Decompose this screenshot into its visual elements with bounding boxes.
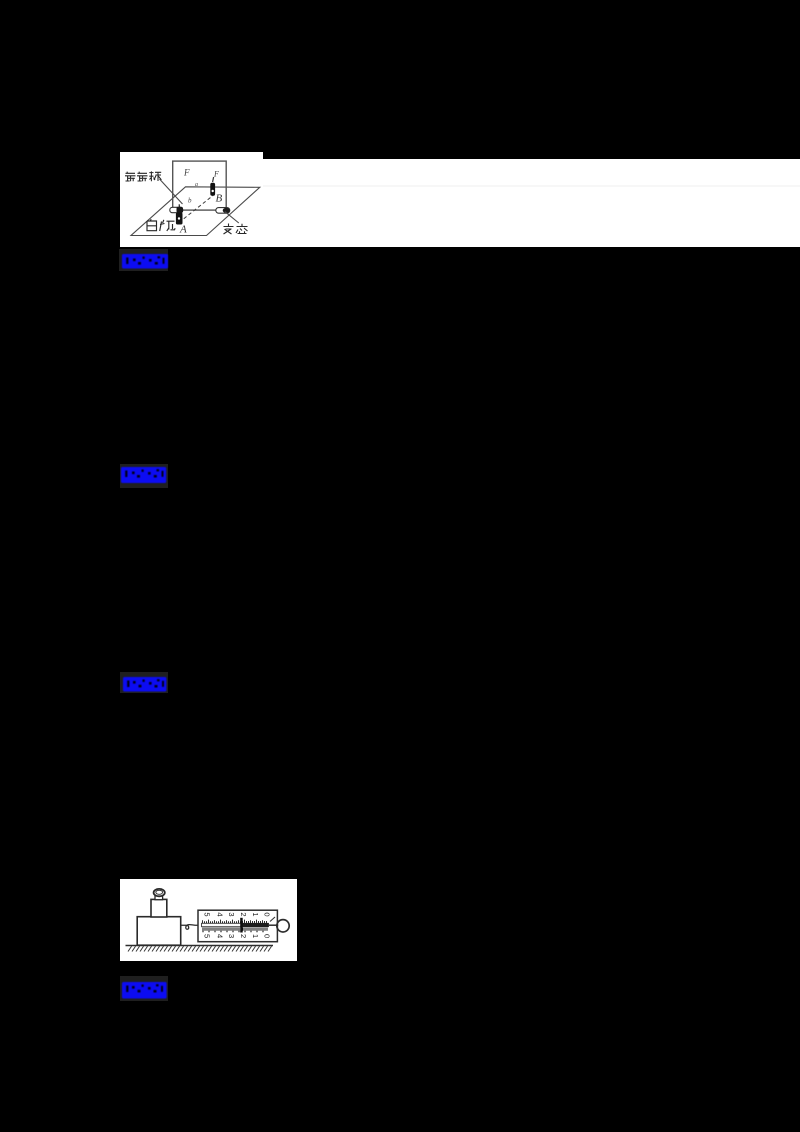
svg-text:0: 0 [262, 934, 271, 938]
candle B body [210, 183, 215, 196]
link artifact box 3 [120, 672, 169, 694]
glyph 支架 [224, 224, 248, 235]
svg-text:2: 2 [239, 912, 248, 916]
svg-text:3: 3 [226, 934, 235, 938]
white paper parallelogram [131, 187, 260, 236]
spring scale body [198, 910, 277, 942]
figure 2: block + weight pulled by spring scale [120, 879, 298, 961]
svg-text:2: 2 [239, 934, 248, 938]
svg-text:4: 4 [215, 934, 224, 938]
ruler ticks below [203, 928, 267, 933]
weight knob neck [155, 896, 163, 900]
pull ring [276, 920, 288, 932]
svg-text:5: 5 [202, 934, 211, 938]
svg-text:3: 3 [226, 912, 235, 916]
blue link 1 【详解】 [121, 253, 169, 270]
svg-text:4: 4 [215, 912, 224, 916]
glass plate rectangle [173, 161, 227, 210]
right clip [216, 208, 230, 214]
small diagonal mark near 0 [270, 917, 275, 922]
weight body [151, 899, 167, 917]
scale shaft left (light ruler segment) [201, 923, 241, 926]
figure 1: plane-mirror (glass plate) experiment [120, 152, 263, 247]
svg-text:B: B [216, 193, 223, 205]
svg-text:0: 0 [262, 912, 271, 916]
faint seam line in strip [263, 185, 800, 187]
bottom row numbers (rotated) [202, 934, 271, 938]
pointer to 支架 [225, 212, 239, 223]
white text-line strip behind figure 1 row [263, 159, 800, 247]
ground hatching [128, 946, 272, 951]
link artifact box 2 [120, 464, 169, 489]
glyph 白纸 [147, 219, 175, 231]
svg-text:5: 5 [202, 912, 211, 916]
connecting hook S-link [180, 925, 197, 930]
candle B flame [213, 177, 214, 182]
svg-text:1: 1 [251, 934, 260, 938]
svg-text:1: 1 [251, 912, 260, 916]
svg-text:b: b [188, 197, 192, 205]
link artifact box 4 [120, 976, 169, 1002]
svg-text:a: a [195, 182, 198, 188]
glyph 琉璃板 (approx strokes) [125, 171, 161, 181]
scale shaft right (dark segment) [241, 923, 269, 927]
dashed sight line A to B [179, 196, 213, 223]
ground line [125, 945, 273, 947]
svg-text:F: F [183, 168, 190, 178]
ruler ticks above [202, 920, 266, 924]
blue link 4 【详解】 [121, 981, 168, 1000]
pointer [240, 918, 243, 933]
weight knob top [153, 889, 164, 896]
link artifact box 1 [119, 249, 168, 271]
svg-text:A: A [179, 224, 187, 236]
label pointer line (glass plate) [160, 179, 183, 204]
blue link 3 【详解】 [122, 676, 167, 693]
shaft extension to ring [268, 924, 277, 926]
candle A wick [178, 204, 180, 207]
block [137, 917, 181, 946]
blue link 2 【详解】 [120, 466, 167, 484]
top row numbers (rotated) [202, 912, 271, 916]
left clip [170, 207, 183, 212]
candle A body [176, 213, 183, 225]
